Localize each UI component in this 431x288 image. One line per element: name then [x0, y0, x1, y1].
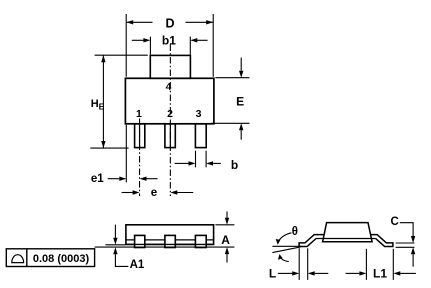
side view body — [126, 225, 214, 245]
svg-text:2: 2 — [167, 108, 173, 120]
svg-text:L: L — [269, 266, 276, 280]
side lead 1 — [135, 235, 145, 247]
right gull-wing lead — [371, 235, 393, 247]
dimension E — [211, 58, 250, 140]
body bottom line crossing leads — [126, 243, 214, 245]
dimension e1 — [125, 125, 127, 183]
svg-text:e: e — [151, 187, 157, 199]
side lead 3 — [195, 235, 206, 247]
dimension b1 — [132, 37, 208, 55]
solid centerline segment through lead 1 — [139, 124, 141, 148]
tab (pin 4) body top — [150, 55, 190, 78]
pin numbers — [136, 81, 202, 120]
svg-text:b1: b1 — [162, 34, 176, 48]
dimension L — [278, 248, 329, 280]
svg-text:4: 4 — [166, 81, 172, 93]
seating plane line — [95, 246, 235, 248]
left gull-wing lead — [299, 235, 324, 247]
svg-text:b: b — [231, 158, 238, 172]
solid centerline segment through lead 2 — [169, 124, 171, 148]
dimension L1 — [346, 249, 416, 280]
dimension theta — [272, 233, 301, 262]
svg-text:D: D — [165, 17, 174, 31]
lead1 centerline — [139, 119, 141, 197]
lead plane line — [316, 238, 376, 240]
profile body — [323, 223, 373, 242]
svg-text:0.08 (0003): 0.08 (0003) — [33, 253, 90, 265]
lead 3 — [195, 124, 206, 148]
flatness tolerance box — [6, 249, 94, 267]
dimension A1 — [105, 244, 125, 246]
svg-text:3: 3 — [196, 108, 202, 120]
dimension C — [396, 223, 415, 267]
side view parting line — [126, 239, 214, 241]
svg-text:C: C — [390, 216, 398, 228]
svg-text:H: H — [91, 98, 99, 110]
dimension A — [215, 211, 234, 262]
svg-text:E: E — [99, 102, 105, 112]
svg-text:A: A — [221, 233, 230, 247]
svg-text:1: 1 — [136, 108, 142, 120]
dimension e — [122, 192, 194, 194]
svg-text:θ: θ — [292, 226, 298, 238]
package body — [125, 78, 213, 124]
dimension b — [175, 151, 221, 168]
side lead 2 — [165, 235, 175, 247]
lead 2 — [165, 124, 175, 148]
svg-text:E: E — [236, 95, 244, 109]
svg-text:A1: A1 — [130, 259, 145, 271]
svg-text:L1: L1 — [373, 266, 387, 280]
lead 1 — [135, 124, 145, 148]
dimension HE — [90, 55, 148, 148]
dimension D — [126, 14, 213, 77]
package centerline — [169, 45, 171, 197]
svg-text:e1: e1 — [91, 173, 104, 185]
seating plane symbol — [12, 255, 24, 263]
